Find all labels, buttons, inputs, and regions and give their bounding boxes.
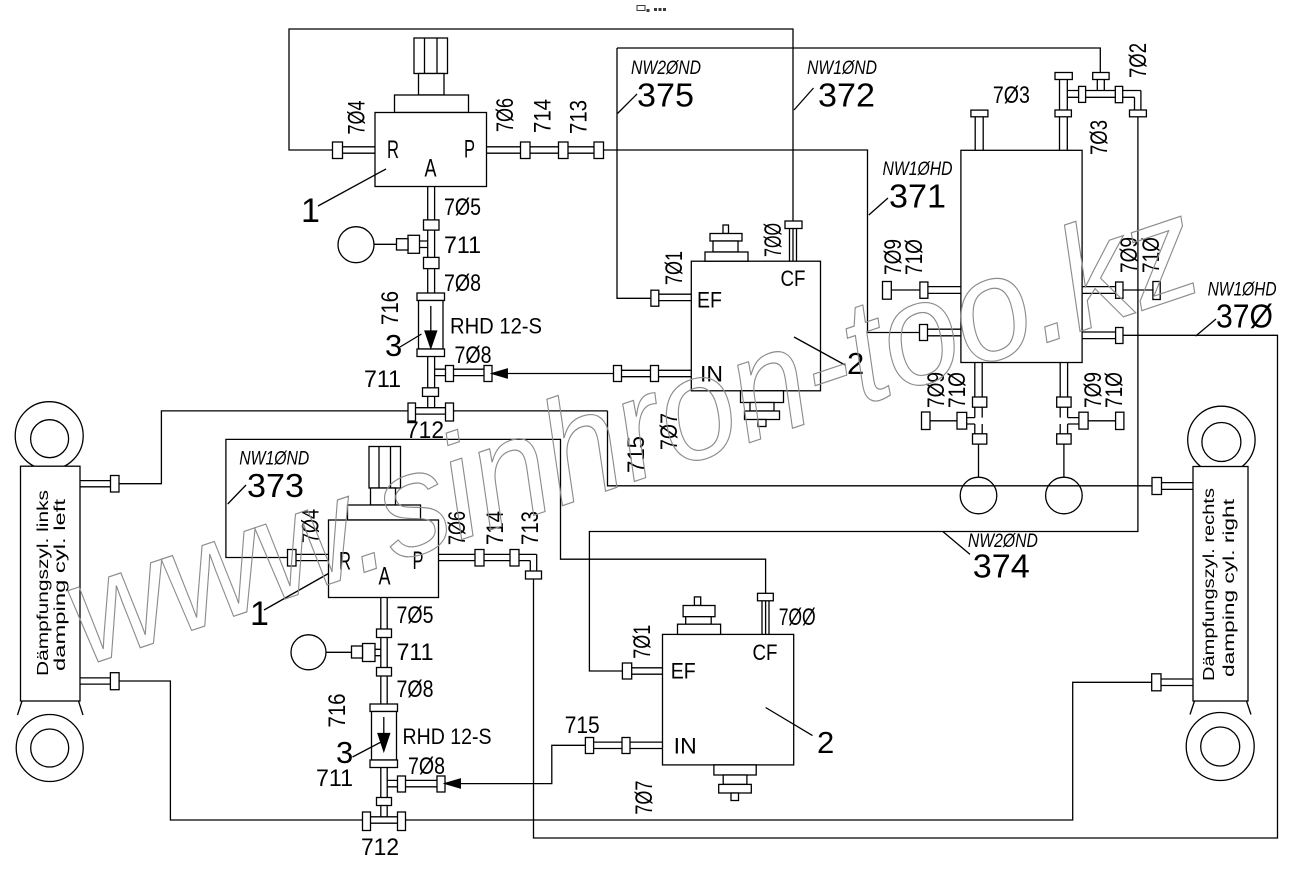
bottom bolt tip lower — [731, 793, 739, 801]
fitting manifold A — [1079, 86, 1086, 102]
fitting on A pipe lower (708) — [377, 668, 392, 677]
stem below cap — [1097, 80, 1104, 91]
valve V1 lower: base plate — [348, 505, 421, 520]
breather tip lower — [694, 597, 700, 606]
left cylinder body — [21, 466, 81, 701]
fitting 714 lower — [510, 550, 519, 567]
bottom bolt washer — [750, 403, 774, 412]
svg-text:371: 371 — [889, 178, 946, 215]
cap on wire2 drop — [1093, 73, 1109, 80]
breather flange lower — [678, 624, 721, 634]
restrictor arrow lower — [383, 717, 385, 734]
fitting left cylinder top port — [111, 476, 120, 493]
right cylinder top eye outer ring — [1188, 406, 1255, 473]
svg-text:P: P — [464, 136, 475, 164]
pipe P port — [487, 147, 595, 153]
svg-text:7ØØ: 7ØØ — [779, 604, 816, 631]
fitting right cylinder top port — [1152, 478, 1162, 495]
gauge tee pipe lower — [375, 649, 381, 655]
right cylinder top eye inner ring — [1202, 423, 1241, 462]
wire R-to-CF loop (hose 375 path) — [289, 29, 793, 261]
fitting on lower A pipe below junction — [377, 798, 392, 806]
fitting EF (701) — [651, 290, 659, 306]
fitting on A pipe (705) — [424, 220, 440, 230]
fitting IN 1 — [614, 366, 622, 382]
fitting left cylinder bottom port — [110, 673, 119, 690]
svg-text:372: 372 — [818, 76, 875, 113]
pressure gauge circle lower — [291, 635, 326, 670]
adapter square gauge — [397, 239, 409, 250]
pipe EF port lower — [632, 668, 663, 674]
tee 712 upper: right bar — [446, 403, 454, 421]
wire P-upper to pump (hose 371 path) — [604, 150, 920, 333]
svg-text:375: 375 — [637, 76, 694, 113]
fitting 706 lower — [475, 550, 484, 567]
svg-text:1: 1 — [301, 192, 320, 230]
fitting pump out — [1116, 328, 1123, 344]
fitting IN 2 — [651, 366, 659, 382]
pipe right cylinder bottom port — [1161, 679, 1193, 686]
svg-text:IN: IN — [674, 734, 697, 759]
wire lower tee line right to right cylinder bottom port — [406, 682, 1152, 820]
svg-text:713: 713 — [566, 100, 593, 134]
svg-text:7Ø1: 7Ø1 — [629, 625, 656, 659]
pump right standpipe — [1060, 80, 1068, 151]
valve V1 lower: knob head — [369, 447, 401, 489]
svg-text:7Ø7: 7Ø7 — [631, 781, 658, 815]
wire lower tee line left to left cylinder bottom port — [119, 681, 362, 820]
svg-text:7Ø1: 7Ø1 — [661, 251, 688, 285]
wire couplings line to right cylinder top port — [608, 411, 1153, 486]
svg-text:7Ø6: 7Ø6 — [492, 98, 519, 132]
pump left port 709/710 pipe — [928, 287, 961, 294]
wire 702 line to lower EF (hose 374 path) — [589, 117, 1138, 671]
fitting on R port (704) — [333, 142, 343, 159]
fitting right cylinder bottom port — [1152, 674, 1161, 691]
fitting 706 — [521, 142, 531, 159]
fitting gauge tee lower — [363, 644, 376, 662]
pipe right cylinder top port — [1162, 483, 1194, 490]
pipe A port down — [428, 187, 435, 294]
fitting IN 2 lower — [622, 738, 630, 754]
left cylinder top eye outer ring — [15, 402, 83, 470]
fitting before arrow — [484, 366, 492, 382]
plug bar left port — [883, 282, 892, 300]
svg-text:71Ø: 71Ø — [1101, 372, 1128, 408]
left cylinder bottom eye inner ring — [31, 729, 69, 767]
valve V1 upper: body — [375, 113, 487, 187]
svg-text:Dämpfungszyl. rechts: Dämpfungszyl. rechts — [1201, 488, 1218, 681]
svg-text:7ØØ: 7ØØ — [760, 223, 787, 257]
breather tip — [723, 225, 729, 234]
plug bar left tee — [922, 412, 931, 430]
pipe A port down lower — [381, 598, 387, 705]
left cylinder bottom port pipe — [80, 678, 110, 684]
svg-text:3: 3 — [385, 328, 402, 363]
adapter square gauge lower — [352, 646, 363, 658]
stub line to plug right — [1123, 289, 1153, 291]
junction arm pipe right lower — [387, 780, 437, 786]
pipe IN port — [622, 370, 692, 376]
bottom bolt tip — [758, 420, 766, 427]
breather nut — [710, 234, 742, 242]
fitting before arrow lower — [437, 776, 445, 792]
restrictor body — [419, 301, 444, 350]
pipe below RHD through junction lower — [381, 768, 387, 817]
restrictor valve RHD 12-S upper: top cap — [417, 293, 445, 301]
fitting EF lower (701) — [622, 663, 631, 679]
bottom bolt flange — [741, 391, 784, 403]
fitting bottom right lower — [1057, 434, 1071, 444]
left cylinder top port pipe — [80, 481, 111, 487]
bar fitting 713 lower (corner drop) — [526, 571, 542, 579]
breather nut lower — [683, 606, 715, 617]
pipe R port — [343, 147, 376, 153]
fitting gauge tee — [408, 235, 420, 253]
fitting bottom left lower — [973, 434, 987, 444]
gauge stub line — [374, 243, 397, 245]
wire lower IN line — [460, 745, 585, 783]
svg-text:A: A — [425, 155, 437, 183]
filter block U2 lower: body — [663, 634, 794, 765]
coupling circle left — [960, 477, 997, 514]
pipe IN port lower — [594, 742, 663, 748]
CF pipe lower — [762, 601, 769, 635]
pressure gauge circle upper — [338, 227, 374, 263]
fitting right port — [1116, 282, 1123, 298]
plug bar right port — [1153, 282, 1160, 300]
bottom bolt flange lower — [714, 765, 756, 775]
svg-text:711: 711 — [364, 366, 401, 393]
svg-text:7Ø8: 7Ø8 — [397, 676, 434, 703]
wire upper tee line to left cylinder top port — [119, 411, 408, 484]
fitting bottom right upper — [1057, 397, 1071, 407]
gauge stub line lower — [326, 651, 352, 653]
pipe below RHD through junction — [428, 357, 435, 408]
stub line to plug — [891, 289, 920, 291]
coupling circle right — [1046, 477, 1083, 514]
valve V1 lower: body — [329, 520, 439, 598]
valve V1 upper: base plate — [395, 95, 469, 113]
pump right port 709/710 pipe — [1082, 287, 1116, 294]
svg-text:CF: CF — [753, 640, 778, 665]
wire EF-upper loop (hose 372 path) — [617, 48, 1100, 298]
left cylinder bottom eye outer ring — [16, 715, 83, 782]
fitting right tee arm — [1079, 412, 1088, 429]
pipe R port lower — [296, 554, 329, 560]
left tee arm pipe — [930, 418, 975, 424]
svg-text:711: 711 — [397, 639, 434, 666]
fitting IN 1 lower — [585, 738, 593, 754]
right tee arm pipe — [1068, 418, 1116, 424]
restrictor arrow — [430, 306, 432, 332]
restrictor body lower — [372, 712, 397, 761]
svg-text:7Ø5: 7Ø5 — [397, 602, 434, 629]
breather washer — [713, 241, 738, 252]
bottom bolt nut lower — [719, 784, 752, 793]
junction arm pipe right — [435, 369, 484, 375]
flow arrow into junction — [492, 369, 507, 378]
tee 712 upper: left bar — [408, 403, 416, 421]
bottom bolt nut — [745, 411, 780, 420]
right cylinder bottom clevis flare — [1190, 701, 1251, 715]
tiny stamp mark top — [637, 6, 666, 13]
pump unit body — [961, 150, 1082, 362]
left cylinder top eye inner ring — [31, 420, 69, 458]
manifold pipe top right — [1067, 91, 1141, 111]
svg-text:7Ø4: 7Ø4 — [344, 101, 371, 135]
CF cap fitting lower — [758, 593, 774, 601]
fitting left port — [920, 282, 928, 298]
svg-text:711: 711 — [316, 765, 353, 792]
svg-text:7Ø8: 7Ø8 — [444, 270, 481, 297]
fitting bottom left upper — [973, 397, 987, 407]
fitting junction arm — [446, 366, 454, 382]
restrictor valve RHD 12-S lower: top cap — [370, 704, 398, 712]
fitting 713 — [594, 142, 604, 159]
svg-text:2: 2 — [817, 725, 834, 760]
valve V1 upper: knob head — [414, 38, 448, 74]
CF pipe — [790, 229, 797, 262]
fitting manifold B — [1115, 86, 1122, 102]
svg-text:RHD 12-S: RHD 12-S — [403, 724, 492, 749]
pump right standpipe cap — [1055, 73, 1072, 80]
wire upper IN line — [507, 373, 614, 375]
restrictor bottom cap — [417, 349, 445, 357]
svg-text:712: 712 — [361, 834, 399, 861]
restrictor bottom cap lower — [370, 760, 398, 768]
left cylinder bottom clevis flare — [18, 701, 84, 715]
svg-text:7Ø2: 7Ø2 — [1125, 43, 1152, 78]
fitting on A pipe lower (705) — [377, 629, 392, 638]
pump left standpipe cap — [971, 110, 988, 117]
svg-text:715: 715 — [565, 712, 600, 739]
breather washer lower — [686, 617, 712, 625]
svg-text:7Ø3: 7Ø3 — [993, 82, 1030, 109]
svg-text:7Ø5: 7Ø5 — [444, 194, 481, 221]
right cylinder body — [1193, 467, 1248, 702]
flow arrow into junction lower — [445, 779, 460, 788]
bottom bolt washer lower — [723, 775, 747, 784]
svg-text:37Ø: 37Ø — [1216, 298, 1273, 335]
plug bar right tee — [1116, 412, 1124, 429]
valve V1 lower: knob stem — [371, 488, 396, 505]
right cylinder bottom eye outer ring — [1186, 713, 1254, 781]
svg-text:716: 716 — [324, 694, 351, 728]
bar fitting on right standpipe — [1055, 110, 1071, 117]
fitting junction arm lower — [398, 776, 406, 792]
wire pump out to right border (hose 370 path) — [534, 335, 1278, 838]
tee 712 upper: cross pipe — [416, 408, 446, 414]
pump left standpipe — [975, 117, 983, 151]
fitting R port lower (704) — [288, 550, 297, 567]
svg-text:7Ø3: 7Ø3 — [1086, 120, 1113, 155]
tee 712 lower: right bar — [398, 812, 406, 831]
right cylinder bottom eye inner ring — [1201, 727, 1240, 766]
pipe EF port — [659, 294, 692, 300]
bar fitting above 702 line — [1130, 110, 1147, 117]
svg-text:374: 374 — [973, 547, 1030, 584]
fitting P-in — [920, 325, 928, 341]
valve V1 upper: knob stem — [419, 74, 445, 96]
svg-text:RHD 12-S: RHD 12-S — [450, 314, 542, 339]
svg-text:EF: EF — [697, 288, 722, 313]
svg-text:716: 716 — [377, 291, 404, 325]
svg-text:R: R — [387, 136, 399, 164]
tee 712 lower: cross pipe — [371, 817, 398, 823]
gauge tee pipe — [420, 241, 428, 248]
svg-text:714: 714 — [530, 99, 557, 133]
svg-text:Dämpfungszyl. links: Dämpfungszyl. links — [35, 490, 52, 676]
pump out pipe right (370) — [1082, 332, 1116, 339]
fitting left tee arm — [957, 412, 967, 429]
fitting on upper A pipe below junction — [423, 388, 439, 397]
svg-text:EF: EF — [671, 659, 696, 684]
CF cap fitting — [785, 221, 802, 229]
svg-text:www.sinhron-too.kz: www.sinhron-too.kz — [44, 164, 1217, 696]
wire upper tee line right segment — [454, 410, 608, 412]
pump bottom right pipe — [1060, 363, 1067, 478]
svg-text:711: 711 — [444, 232, 481, 259]
filter block U2 upper: body — [691, 261, 820, 391]
svg-text:damping cyl. right: damping cyl. right — [1221, 498, 1238, 677]
pump P-in pipe — [928, 329, 961, 336]
pump bottom left pipe — [975, 363, 982, 478]
fitting 714 — [559, 142, 569, 159]
breather flange — [705, 252, 748, 261]
pipe P port lower — [439, 554, 537, 571]
wire lower R loop to lower CF (hose 373 path) — [226, 439, 766, 634]
fitting on A pipe (708) — [424, 257, 440, 268]
tee 712 lower: left bar — [363, 812, 371, 831]
